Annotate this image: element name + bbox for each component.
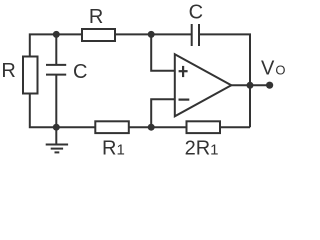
ground stub [55,127,57,144]
svg-text:C: C [189,2,203,24]
svg-text:R1: R1 [102,138,125,160]
op-amp U1 triangle [175,54,232,116]
wire left rail lower segment and bottom wire to R1 [30,94,96,128]
terminal dot Vo [266,82,273,89]
resistor 2R1 box [187,121,221,133]
node dot at bottom wire split to op-amp - [148,124,155,131]
svg-text:2R1: 2R1 [185,137,219,159]
svg-text:R: R [1,60,15,82]
capacitor C left plates [46,64,66,66]
svg-text:C: C [73,61,87,83]
wire top middle segment [115,33,192,35]
wire top-left loop: top wire to left rail upper segment [30,34,82,56]
node dot at top of left capacitor [53,31,60,38]
wire op-amp output to Vo terminal [231,84,269,86]
node dot at top wire split to op-amp + [148,31,155,38]
wire bottom right segment from 2R1 to right corner [220,126,250,128]
resistor R1 box [95,121,129,133]
ground bar 3 [55,151,60,153]
op-amp minus sign [179,98,190,100]
op-amp plus sign [179,66,188,77]
wire noninverting input from top node [151,34,175,70]
capacitor C top plates [191,24,193,46]
ground bar 1 [46,144,68,146]
wire capacitor C left upper leg [55,34,57,65]
wire bottom middle segment R1 to 2R1 [129,126,187,128]
node dot at bottom above ground [53,124,60,131]
svg-text:VO: VO [261,58,285,80]
resistor R top horizontal box [82,29,115,41]
wire inverting input from bottom node [151,99,175,127]
resistor R left vertical box [23,57,38,94]
wire capacitor C left lower leg [55,75,57,128]
ground bar 2 [51,148,63,150]
svg-text:R: R [89,6,103,28]
node dot at output junction [247,82,254,89]
wire top right segment from capacitor to right corner and down [199,34,250,127]
